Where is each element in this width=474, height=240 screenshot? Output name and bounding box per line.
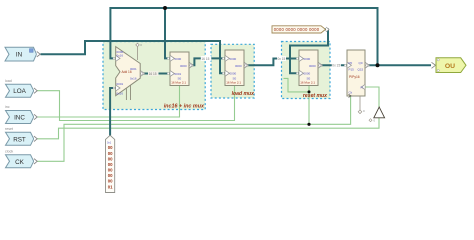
svg-text:Q15: Q15 [358,68,364,72]
svg-text:0: 0 [363,109,365,113]
svg-text:0000: 0000 [230,72,237,76]
svg-text:00: 00 [108,145,113,150]
svg-text:16 Mux 2:1: 16 Mux 2:1 [171,81,186,85]
svg-text:0: 0 [374,118,376,122]
svg-text:LOA: LOA [13,88,26,95]
svg-text:00: 00 [108,151,113,156]
svg-text:0000: 0000 [304,57,311,61]
svg-text:0001: 0001 [175,72,182,76]
svg-text:0000: 0000 [309,64,316,68]
svg-text:01: 01 [108,184,113,189]
svg-text:RST: RST [13,136,26,143]
svg-text:16 15: 16 15 [149,72,157,76]
svg-text:00: 00 [108,156,113,161]
svg-text:IN: IN [16,52,23,59]
svg-text:reset mux: reset mux [303,93,327,99]
svg-text:P15: P15 [349,68,355,72]
svg-text:PIPy16: PIPy16 [349,75,360,79]
svg-text:inc: inc [5,105,10,109]
svg-text:0x1: 0x1 [107,141,112,145]
svg-text:0x16: 0x16 [117,92,124,96]
svg-text:0x16: 0x16 [130,77,137,81]
svg-text:16 Mux 2:1: 16 Mux 2:1 [226,81,241,85]
svg-text:OU: OU [445,63,455,70]
svg-text:P0: P0 [349,61,353,65]
svg-text:Add 16: Add 16 [122,70,132,74]
svg-text:0000: 0000 [304,72,311,76]
svg-text:load: load [5,79,12,83]
svg-text:00: 00 [108,162,113,167]
svg-text:0000 0000 0000 0000: 0000 0000 0000 0000 [274,27,320,32]
svg-text:16 Mux 2:1: 16 Mux 2:1 [300,81,315,85]
svg-text:0000: 0000 [175,57,182,61]
svg-text:inc16 + inc mux: inc16 + inc mux [164,104,205,110]
svg-text:Ck: Ck [349,91,353,95]
svg-text:0x 15: 0x 15 [278,57,286,61]
svg-text:0001: 0001 [117,82,124,86]
svg-text:16 15: 16 15 [201,57,209,61]
svg-text:Q0: Q0 [359,61,363,65]
svg-text:S0: S0 [178,77,182,81]
svg-text:CK: CK [15,159,25,166]
svg-text:00: 00 [108,179,113,184]
svg-text:0x16: 0x16 [117,53,124,57]
svg-text:S0: S0 [233,77,237,81]
svg-text:0000: 0000 [235,64,242,68]
svg-text:load mux: load mux [232,91,255,97]
svg-text:S0: S0 [307,77,311,81]
svg-text:00: 00 [108,168,113,173]
svg-text:reset: reset [5,127,13,131]
svg-text:0000: 0000 [180,64,187,68]
svg-text:clock: clock [5,150,13,154]
svg-text:INC: INC [14,115,25,122]
svg-text:0000: 0000 [230,57,237,61]
svg-text:00: 00 [108,173,113,178]
svg-text:0x 15: 0x 15 [332,64,340,68]
